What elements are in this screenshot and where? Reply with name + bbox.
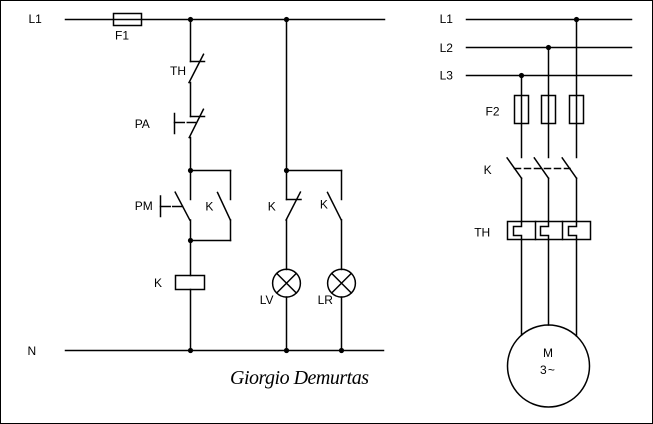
svg-text:F2: F2	[486, 104, 500, 118]
svg-text:F1: F1	[115, 28, 129, 42]
svg-text:LV: LV	[260, 293, 274, 307]
svg-text:K: K	[320, 198, 328, 212]
svg-text:Giorgio Demurtas: Giorgio Demurtas	[230, 367, 369, 389]
svg-text:TH: TH	[474, 225, 490, 239]
svg-text:K: K	[154, 276, 162, 290]
svg-text:PA: PA	[135, 117, 150, 131]
svg-text:N: N	[28, 344, 37, 358]
svg-text:L2: L2	[440, 41, 454, 55]
svg-text:K: K	[268, 200, 276, 214]
svg-text:L3: L3	[440, 68, 454, 82]
svg-text:L1: L1	[440, 12, 454, 26]
svg-text:M: M	[543, 346, 553, 360]
svg-text:K: K	[205, 199, 213, 213]
svg-text:PM: PM	[135, 199, 153, 213]
svg-text:3~: 3~	[540, 363, 556, 377]
svg-text:K: K	[484, 163, 492, 177]
svg-text:LR: LR	[318, 293, 334, 307]
svg-text:L1: L1	[29, 12, 43, 26]
svg-text:TH: TH	[170, 64, 186, 78]
